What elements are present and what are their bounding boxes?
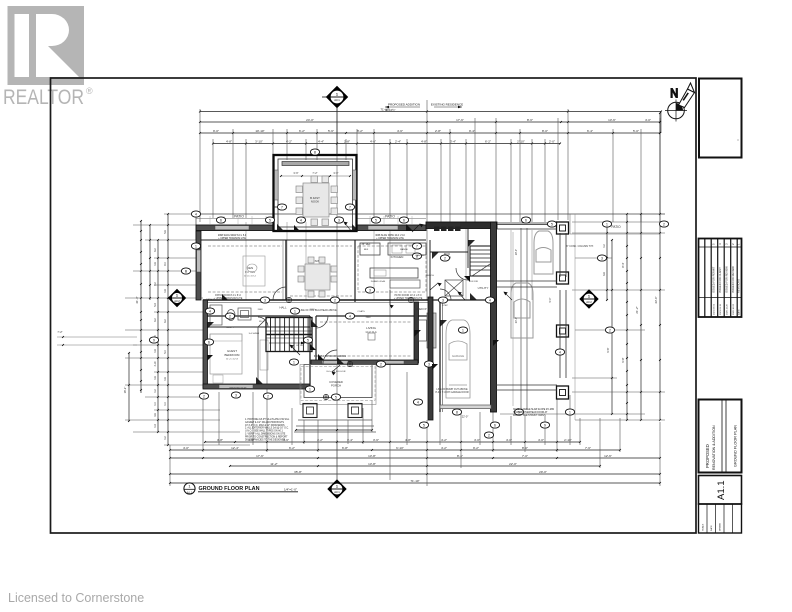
svg-text:STEP: STEP xyxy=(442,305,448,307)
dimension line: overall width (top) xyxy=(200,111,661,113)
door swing: den xyxy=(273,287,286,300)
wall: den east partition xyxy=(285,240,287,300)
svg-text:1: 1 xyxy=(293,360,295,364)
svg-text:6: 6 xyxy=(208,340,210,344)
svg-text:3'-6": 3'-6" xyxy=(333,171,338,175)
porch roof dashed outline xyxy=(301,367,375,401)
svg-text:LINE OF CLG BULKHEAD ABOVE: LINE OF CLG BULKHEAD ABOVE xyxy=(299,309,337,312)
dimension line: top level 2 xyxy=(200,121,660,123)
svg-text:6'-2": 6'-2" xyxy=(299,129,305,133)
svg-text:13'-6": 13'-6" xyxy=(608,118,616,122)
patio outline xyxy=(196,213,665,215)
section marker: left xyxy=(169,290,186,307)
svg-text:DN 13R: DN 13R xyxy=(470,281,478,283)
svg-text:A3.1: A3.1 xyxy=(334,490,340,494)
porch column east xyxy=(348,404,362,418)
svg-text:1: 1 xyxy=(462,328,464,332)
svg-text:7'-2": 7'-2" xyxy=(312,171,317,175)
svg-text:3'-8": 3'-8" xyxy=(217,438,223,442)
svg-text:2: 2 xyxy=(380,362,382,366)
svg-text:GROUND FLOOR PLAN: GROUND FLOOR PLAN xyxy=(199,486,260,492)
svg-text:REVISIONS: REVISIONS xyxy=(736,279,740,293)
svg-text:3: 3 xyxy=(428,362,430,366)
furniture: guest bed xyxy=(210,334,242,374)
svg-text:9'-0" CLG: 9'-0" CLG xyxy=(245,272,255,274)
svg-text:9'-4": 9'-4" xyxy=(469,129,475,133)
svg-text:8: 8 xyxy=(314,150,316,154)
svg-text:4'-8": 4'-8" xyxy=(405,438,411,442)
svg-text:12'-6": 12'-6" xyxy=(604,454,612,458)
svg-text:DRAWN: DRAWN xyxy=(719,522,722,531)
dimension line: far right vertical xyxy=(659,113,661,420)
dimension line: top level 4 xyxy=(213,143,560,145)
svg-text:8'-0 x 7'-0 OH GARAGE DOOR: 8'-0 x 7'-0 OH GARAGE DOOR xyxy=(435,391,469,394)
wall: guest wing east xyxy=(309,316,311,389)
svg-text:DISCREPANCIES TO THE DESIGNER.: DISCREPANCIES TO THE DESIGNER. xyxy=(245,438,286,441)
svg-text:10'-10": 10'-10" xyxy=(255,129,264,133)
note block: garage slab note xyxy=(513,408,554,417)
svg-text:4: 4 xyxy=(489,298,491,302)
svg-text:2: 2 xyxy=(444,256,446,260)
svg-text:9'-6": 9'-6" xyxy=(606,347,610,352)
svg-text:5-0 SHWR: 5-0 SHWR xyxy=(249,333,260,335)
svg-text:6: 6 xyxy=(494,423,496,427)
small circle markers xyxy=(286,297,413,399)
svg-text:A3.1: A3.1 xyxy=(334,98,340,102)
svg-text:5: 5 xyxy=(423,423,425,427)
bath fixtures xyxy=(210,305,251,325)
svg-text:PATIO: PATIO xyxy=(234,215,244,219)
carport column 3 xyxy=(557,325,569,337)
svg-text:1/4"=1'-0": 1/4"=1'-0" xyxy=(284,488,297,492)
svg-text:11'-2": 11'-2" xyxy=(270,462,277,466)
title block: consultant box xyxy=(699,79,742,158)
kitchen counters xyxy=(360,243,426,278)
svg-text:8'-0": 8'-0" xyxy=(542,129,548,133)
svg-text:ISSUED FOR REVIEW: ISSUED FOR REVIEW xyxy=(724,266,728,293)
svg-text:HALL: HALL xyxy=(280,306,287,310)
svg-text:4'-4": 4'-4" xyxy=(318,139,324,143)
centerline: addition/existing split xyxy=(426,100,428,300)
extra door wedges xyxy=(207,225,499,370)
svg-text:71'-10": 71'-10" xyxy=(410,479,419,483)
furniture: nook table and chairs xyxy=(296,176,338,226)
svg-text:2668: 2668 xyxy=(310,309,316,311)
kitchen island fixtures xyxy=(390,280,420,288)
svg-text:6'-2": 6'-2" xyxy=(289,446,295,450)
svg-text:13'-8": 13'-8" xyxy=(368,454,376,458)
svg-text:LINEN: LINEN xyxy=(289,317,296,319)
north wall annotations xyxy=(218,235,406,240)
svg-text:4: 4 xyxy=(349,314,351,318)
wall: garage north xyxy=(432,299,496,301)
section marker: top xyxy=(322,87,348,156)
svg-text:2. ALL EXTERIOR WALLS 2x6 @ 16: 2. ALL EXTERIOR WALLS 2x6 @ 16" O.C. xyxy=(245,427,289,430)
door swing: utility xyxy=(440,289,451,300)
svg-text:W.I.C.: W.I.C. xyxy=(259,321,265,323)
svg-text:TOWARD OVERHEAD DOOR AT: TOWARD OVERHEAD DOOR AT xyxy=(513,411,548,414)
svg-text:8'-4": 8'-4" xyxy=(457,454,463,458)
section marker: bottom xyxy=(328,480,346,498)
svg-text:9'-0": 9'-0" xyxy=(549,297,552,302)
covered porch outline xyxy=(304,365,372,398)
svg-text:1: 1 xyxy=(336,485,338,489)
dimension line: bottom level 4 xyxy=(230,465,600,467)
furniture: dining table xyxy=(298,257,337,297)
svg-text:2668: 2668 xyxy=(258,309,264,311)
wall: living east xyxy=(414,302,419,363)
svg-text:3. VERIFY ALL DIMENSIONS ON SI: 3. VERIFY ALL DIMENSIONS ON SITE xyxy=(245,433,286,436)
svg-text:1. PROVIDE 2x6 PT SILL PLATE C: 1. PROVIDE 2x6 PT SILL PLATE C/W SILL xyxy=(245,418,290,421)
wall: hall south xyxy=(203,315,310,317)
dimension line: bottom steps xyxy=(296,429,372,431)
svg-text:9: 9 xyxy=(544,423,546,427)
svg-text:PROPOSED ADDITION: PROPOSED ADDITION xyxy=(388,103,420,107)
stair arrow xyxy=(269,342,305,344)
wall: west exterior xyxy=(196,231,201,300)
svg-text:BATH 2: BATH 2 xyxy=(206,298,214,301)
wall: north exterior garage block segment xyxy=(426,222,497,229)
svg-text:2021.01.15: 2021.01.15 xyxy=(720,303,722,315)
centerline: main vertical axis xyxy=(336,106,338,480)
svg-text:ISSUED FOR REVIEW: ISSUED FOR REVIEW xyxy=(731,266,735,293)
svg-text:PROPOSED: PROPOSED xyxy=(705,444,710,468)
svg-text:3'-10": 3'-10" xyxy=(255,139,263,143)
svg-text:22'-0": 22'-0" xyxy=(462,415,469,419)
svg-text:4'-6": 4'-6" xyxy=(370,139,376,143)
svg-text:1: 1 xyxy=(309,387,311,391)
svg-text:A3.2: A3.2 xyxy=(586,300,592,304)
svg-text:43'-6": 43'-6" xyxy=(654,296,658,303)
svg-text:6'-2": 6'-2" xyxy=(485,139,491,143)
svg-text:RENOVATION & ADDITION: RENOVATION & ADDITION xyxy=(712,425,716,470)
svg-text:AT 4'-0" O.C. MAX & 12" FROM E: AT 4'-0" O.C. MAX & 12" FROM ENDS xyxy=(245,424,285,427)
svg-text:ISSUED FOR CLIENT: ISSUED FOR CLIENT xyxy=(718,267,722,293)
svg-text:Licensed to Cornerstone: Licensed to Cornerstone xyxy=(8,591,144,605)
svg-text:®: ® xyxy=(86,86,93,96)
svg-text:REF: REF xyxy=(364,249,369,251)
svg-text:2'-4": 2'-4" xyxy=(395,139,401,143)
svg-text:5: 5 xyxy=(269,218,271,222)
svg-text:ISSUED FOR PERMIT: ISSUED FOR PERMIT xyxy=(711,266,715,293)
terrace edge xyxy=(574,214,576,420)
svg-text:2'-10": 2'-10" xyxy=(517,139,525,143)
window: living south xyxy=(322,361,348,364)
door opening wedges xyxy=(207,224,477,384)
svg-text:5: 5 xyxy=(551,222,553,226)
dimension line: right level 3 xyxy=(626,214,628,420)
svg-text:4'-0": 4'-0" xyxy=(645,118,651,122)
svg-text:DEN: DEN xyxy=(247,266,253,270)
mud room closet xyxy=(445,280,463,296)
svg-text:2: 2 xyxy=(488,433,490,437)
window and door tags xyxy=(149,149,668,438)
svg-text:UTILITY: UTILITY xyxy=(478,286,489,290)
svg-text:NOOK: NOOK xyxy=(311,200,319,204)
furniture: den desk xyxy=(243,256,265,286)
svg-text:1: 1 xyxy=(336,93,338,97)
svg-text:12'-4": 12'-4" xyxy=(231,446,239,450)
dimension line: left outer vertical xyxy=(140,221,142,393)
svg-text:8-0 x 8-0 SLDG DR: 8-0 x 8-0 SLDG DR xyxy=(327,371,346,373)
svg-text:4: 4 xyxy=(417,400,419,404)
svg-text:9'-2": 9'-2" xyxy=(473,446,479,450)
dimension line: right outer vertical xyxy=(640,214,642,420)
interior witness verticals xyxy=(246,222,532,300)
svg-text:+ UPPER TRANSOM LITE: + UPPER TRANSOM LITE xyxy=(214,297,243,300)
svg-text:13'-8": 13'-8" xyxy=(368,462,376,466)
patio inner edge xyxy=(196,218,273,220)
svg-text:+ UPPER TRANSOM LITE: + UPPER TRANSOM LITE xyxy=(376,237,404,240)
svg-text:6: 6 xyxy=(525,218,527,222)
svg-text:2: 2 xyxy=(334,298,336,302)
svg-text:3: 3 xyxy=(442,298,444,302)
svg-text:3: 3 xyxy=(264,298,266,302)
svg-text:7: 7 xyxy=(349,205,351,209)
svg-text:+ UPPER TRANSOM LITE: + UPPER TRANSOM LITE xyxy=(218,237,246,240)
svg-text:A3.2: A3.2 xyxy=(174,299,180,303)
wall: guest bath partition xyxy=(207,326,310,328)
svg-text:A1.1: A1.1 xyxy=(716,480,727,500)
svg-text:29'-0": 29'-0" xyxy=(539,470,547,474)
svg-text:41'-4": 41'-4" xyxy=(135,296,139,303)
guest closet xyxy=(257,327,259,384)
svg-text:2'-8": 2'-8" xyxy=(344,139,350,143)
note block: foundation note xyxy=(245,418,290,441)
svg-text:1: 1 xyxy=(606,222,608,226)
wall spec annotations xyxy=(214,243,594,394)
dimension line: left guest suite vertical xyxy=(128,353,130,421)
carport column 1 xyxy=(557,222,569,234)
wall: hall north xyxy=(203,299,430,301)
svg-text:GARAGE: GARAGE xyxy=(452,354,464,358)
wall: mud room partitions xyxy=(429,240,431,300)
svg-text:4'-0": 4'-0" xyxy=(538,438,544,442)
svg-text:4'-2": 4'-2" xyxy=(441,438,447,442)
REALTOR watermark logo xyxy=(3,6,93,109)
svg-text:21'-2": 21'-2" xyxy=(635,306,639,313)
carport header dim line xyxy=(497,224,556,226)
svg-text:FRONT - SEE STRUCT. DWGS: FRONT - SEE STRUCT. DWGS xyxy=(513,415,546,417)
svg-text:3: 3 xyxy=(601,256,603,260)
svg-text:A1.1: A1.1 xyxy=(187,490,193,494)
porch column west xyxy=(303,404,317,418)
svg-text:6" CONC. COLUMN TYP.: 6" CONC. COLUMN TYP. xyxy=(566,245,594,248)
svg-text:9: 9 xyxy=(153,338,155,342)
dimension line: top level 3 xyxy=(200,132,660,134)
svg-text:5: 5 xyxy=(307,338,309,342)
wall: breakfast nook xyxy=(274,155,358,231)
svg-text:2: 2 xyxy=(609,328,611,332)
svg-text:24'-0": 24'-0" xyxy=(306,118,314,122)
svg-text:2020.10.02: 2020.10.02 xyxy=(733,303,735,315)
svg-text:3068 SLDG WDW 10-0 x 5-0: 3068 SLDG WDW 10-0 x 5-0 xyxy=(375,235,405,237)
svg-text:4: 4 xyxy=(209,309,211,313)
dimension line: bottom level 2 xyxy=(170,449,620,451)
svg-text:9'-8": 9'-8" xyxy=(621,357,625,362)
svg-text:BEDROOM: BEDROOM xyxy=(225,353,241,357)
svg-text:8: 8 xyxy=(456,410,458,414)
svg-text:71'-10": 71'-10" xyxy=(380,107,389,111)
svg-text:1: 1 xyxy=(195,244,197,248)
door swing: front entry xyxy=(323,350,337,364)
svg-text:NOTE: GARAGE SLAB SLOPE 2% MIN: NOTE: GARAGE SLAB SLOPE 2% MIN xyxy=(513,408,554,411)
svg-text:7'-6": 7'-6" xyxy=(585,446,591,450)
wall: garage east xyxy=(491,222,497,412)
svg-text:COATS: COATS xyxy=(357,310,365,313)
svg-text:3'-6": 3'-6" xyxy=(373,438,379,442)
dimension line: right level 2 xyxy=(611,240,613,414)
svg-text:6'-0 x 8'-0 PATIO DR SLIDING: 6'-0 x 8'-0 PATIO DR SLIDING xyxy=(314,355,346,358)
carport column 4 xyxy=(557,386,569,399)
svg-text:VANITY: VANITY xyxy=(226,326,234,329)
svg-text:17'-6": 17'-6" xyxy=(456,118,464,122)
svg-text:4: 4 xyxy=(195,212,197,216)
svg-text:4-10: 4-10 xyxy=(154,361,157,366)
witness lines from top dimensions xyxy=(200,109,660,222)
svg-text:2: 2 xyxy=(203,394,205,398)
stairs xyxy=(266,318,312,352)
svg-text:1: 1 xyxy=(569,410,571,414)
dimension label: proposed addition / existing residence xyxy=(384,103,463,112)
witness lines to bottom dimensions xyxy=(170,300,660,486)
svg-text:7: 7 xyxy=(416,244,418,248)
svg-text:3: 3 xyxy=(235,393,237,397)
svg-text:2020.11.20: 2020.11.20 xyxy=(726,303,728,315)
svg-text:4'-2": 4'-2" xyxy=(441,446,447,450)
wall: living west xyxy=(315,316,317,363)
dimension line: right level 1 xyxy=(606,222,608,300)
wall: garage west xyxy=(428,297,433,420)
svg-text:PATIO: PATIO xyxy=(385,215,395,219)
wall: guest wing west xyxy=(203,300,208,388)
svg-text:18'-0": 18'-0" xyxy=(515,249,518,255)
interior annotations xyxy=(206,248,478,373)
svg-text:5: 5 xyxy=(335,395,337,399)
window: den west xyxy=(197,250,201,272)
svg-text:2: 2 xyxy=(229,314,231,318)
svg-text:6'-10": 6'-10" xyxy=(396,446,404,450)
witness lines from left dimensions xyxy=(125,214,250,445)
carport driveway edges xyxy=(520,228,522,410)
svg-text:17'-6": 17'-6" xyxy=(256,454,264,458)
utility fixtures xyxy=(434,227,440,232)
svg-text:2: 2 xyxy=(663,222,665,226)
svg-text:7'-0": 7'-0" xyxy=(522,454,528,458)
wall: north exterior middle segment xyxy=(357,225,426,231)
svg-text:REALTOR: REALTOR xyxy=(3,86,84,109)
svg-text:2968 SLDG WDW 8-0 x 5-0: 2968 SLDG WDW 8-0 x 5-0 xyxy=(218,235,247,237)
svg-text:2: 2 xyxy=(267,394,269,398)
svg-text:PRIOR TO CONSTRUCTION & REPORT: PRIOR TO CONSTRUCTION & REPORT xyxy=(245,436,288,438)
svg-text:4'-8": 4'-8" xyxy=(421,139,427,143)
svg-text:6: 6 xyxy=(220,218,222,222)
wall: inner north line xyxy=(196,239,426,241)
terrace beams xyxy=(496,223,566,390)
svg-text:5'-6": 5'-6" xyxy=(328,129,334,133)
svg-text:5'-0": 5'-0" xyxy=(633,129,639,133)
svg-text:22'-0": 22'-0" xyxy=(509,462,517,466)
revision table xyxy=(699,239,742,318)
door swing: living xyxy=(316,316,328,328)
fireplace xyxy=(427,313,436,348)
basement stair xyxy=(470,246,495,276)
wall: north exterior west segment xyxy=(196,225,273,231)
door swing: guest bedroom xyxy=(258,317,268,327)
svg-text:WINDOW SEAT: WINDOW SEAT xyxy=(229,387,247,390)
wall: guest wing south xyxy=(203,384,310,389)
patio paving lines xyxy=(210,216,412,224)
svg-text:4'-8": 4'-8" xyxy=(226,139,232,143)
svg-text:PORCH: PORCH xyxy=(331,384,341,388)
drawing title: ground floor plan xyxy=(184,483,298,494)
svg-text:LIVING: LIVING xyxy=(366,326,377,330)
svg-text:35'-8": 35'-8" xyxy=(294,470,302,474)
dimension line: left level 4 xyxy=(167,214,169,445)
garage door xyxy=(440,405,491,409)
carport rotated dimensions xyxy=(515,249,552,323)
svg-text:4'-6": 4'-6" xyxy=(397,129,403,133)
svg-text:4'-0": 4'-0" xyxy=(183,446,189,450)
sheet number box A1.1 xyxy=(699,476,742,505)
svg-text:11'-2 x 12'-8: 11'-2 x 12'-8 xyxy=(226,359,239,361)
wall: dining east partition xyxy=(354,240,356,302)
dimension line: bottom level 3 xyxy=(170,457,660,459)
svg-text:8'-2": 8'-2" xyxy=(357,129,363,133)
svg-text:36" REF: 36" REF xyxy=(362,243,371,246)
svg-text:6'-8": 6'-8" xyxy=(342,446,348,450)
dimension line: bottom overall xyxy=(170,473,660,475)
svg-text:GASKET & 1/2" DIA ANCHOR BOLTS: GASKET & 1/2" DIA ANCHOR BOLTS xyxy=(245,421,284,424)
dimension line: left level 2 xyxy=(149,225,151,300)
svg-text:6: 6 xyxy=(403,218,405,222)
svg-text:1: 1 xyxy=(588,295,590,299)
svg-text:2'-0": 2'-0" xyxy=(549,139,555,143)
svg-text:2-SIDED FP: 2-SIDED FP xyxy=(413,308,427,311)
svg-text:+ UPPER TRANSOM LITE: + UPPER TRANSOM LITE xyxy=(394,297,423,300)
svg-text:KITCHEN: KITCHEN xyxy=(391,255,404,259)
svg-text:3: 3 xyxy=(369,288,371,292)
svg-text:4: 4 xyxy=(559,350,561,354)
svg-text:20'-4": 20'-4" xyxy=(515,317,518,323)
svg-text:DATE: DATE xyxy=(710,525,713,531)
svg-text:4'-0": 4'-0" xyxy=(474,438,480,442)
svg-text:2868: 2868 xyxy=(366,317,372,319)
svg-text:2'-10": 2'-10" xyxy=(564,438,572,442)
furniture: carport car 2 xyxy=(511,283,533,338)
svg-text:UP 14R: UP 14R xyxy=(296,345,304,347)
ceiling bulkhead dashed lines xyxy=(208,246,426,356)
svg-text:ISLAND 42x84: ISLAND 42x84 xyxy=(371,280,386,283)
svg-text:RANGE: RANGE xyxy=(400,248,408,251)
svg-text:4: 4 xyxy=(300,218,302,222)
carport column 2 xyxy=(557,272,569,284)
title block: footer strip xyxy=(699,504,742,533)
svg-text:3: 3 xyxy=(338,218,340,222)
dimension line: bottom level 1 xyxy=(205,441,580,443)
svg-text:11'-6 x 13'-2: 11'-6 x 13'-2 xyxy=(244,276,257,278)
svg-text:SCALE: SCALE xyxy=(702,523,705,531)
svg-text:3'-6": 3'-6" xyxy=(293,171,298,175)
svg-text:BENCH: BENCH xyxy=(426,275,434,277)
wall: living south xyxy=(311,360,418,365)
svg-text:1: 1 xyxy=(176,294,178,298)
svg-text:16'-2": 16'-2" xyxy=(123,387,127,394)
svg-text:6'-4": 6'-4" xyxy=(587,129,593,133)
svg-text:DATE: DATE xyxy=(737,309,740,315)
furniture: car xyxy=(446,320,470,398)
window: guest bedroom south xyxy=(219,385,253,389)
